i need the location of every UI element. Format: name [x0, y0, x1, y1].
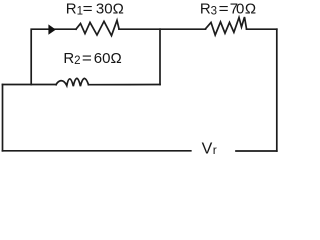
wire top-right segment	[247, 28, 277, 30]
wire right vertical	[276, 29, 278, 151]
wire middle junction vertical	[159, 29, 161, 84]
wire R2 branch left lead	[3, 84, 57, 86]
wire top-left segment with corner	[31, 29, 76, 84]
wire left outer vertical	[2, 85, 4, 151]
svg-text:R3=70Ω: R3=70Ω	[200, 0, 256, 17]
wire R2 branch right lead	[89, 84, 161, 86]
resistor R2	[56, 78, 89, 86]
svg-text:R1=30Ω: R1=30Ω	[66, 0, 124, 17]
current direction arrow	[48, 24, 55, 34]
wire top middle segment	[119, 28, 206, 30]
svg-text:Vr: Vr	[202, 141, 217, 158]
wire bottom-right segment	[236, 150, 277, 152]
svg-text:R2=60Ω: R2=60Ω	[63, 50, 121, 67]
resistor R3	[206, 17, 247, 35]
wire bottom-left segment	[3, 150, 191, 152]
resistor R1	[76, 20, 119, 35]
